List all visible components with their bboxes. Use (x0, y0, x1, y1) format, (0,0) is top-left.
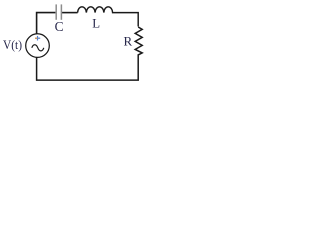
svg-text:C: C (55, 19, 64, 34)
svg-text:V(t): V(t) (3, 38, 22, 52)
svg-text:L: L (92, 16, 100, 30)
svg-text:R: R (124, 33, 133, 48)
